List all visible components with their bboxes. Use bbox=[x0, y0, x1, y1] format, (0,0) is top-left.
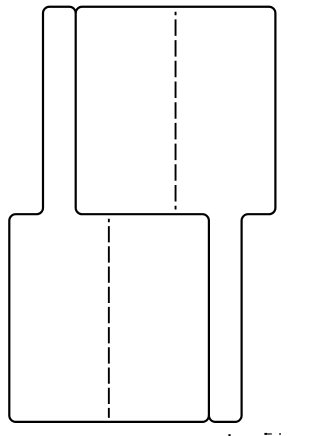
text fragment: clipped caption mark 3 bbox=[267, 433, 272, 435]
fold line: bottom panel (dashed) bbox=[108, 219, 110, 418]
text fragment: clipped caption mark 4 bbox=[279, 433, 281, 435]
outline: bottom panel with left glue tab bbox=[9, 7, 209, 422]
fold line: top panel (dashed) bbox=[175, 12, 177, 210]
outline: top panel with right glue tab bbox=[76, 7, 276, 422]
text fragment: clipped caption mark 2 bbox=[264, 433, 267, 435]
text fragment: clipped caption mark 1 bbox=[228, 434, 230, 436]
